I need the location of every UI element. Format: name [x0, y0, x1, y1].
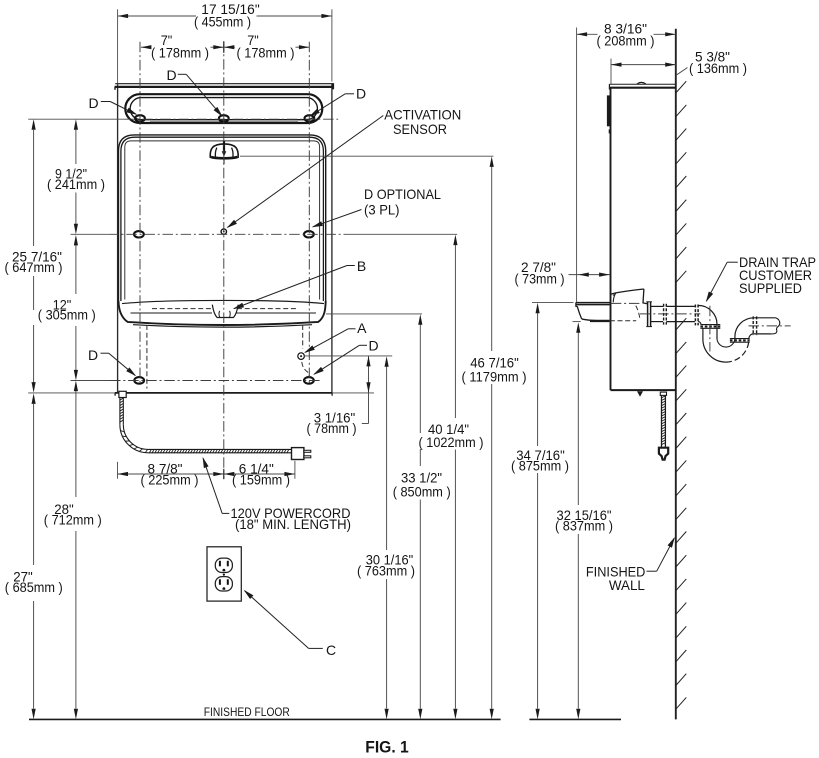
- svg-text:D OPTIONAL: D OPTIONAL: [364, 186, 441, 202]
- dimension 25 7/16in: [33, 130, 35, 246]
- wall hatching: [676, 81, 687, 709]
- waste pipe centerline: [749, 325, 791, 327]
- svg-text:( 647mm ): ( 647mm ): [5, 259, 63, 275]
- bubbler hood (side view): [611, 289, 644, 294]
- svg-text:SENSOR: SENSOR: [393, 121, 447, 137]
- trap hub joint below elbow: [700, 324, 720, 326]
- mounting hole D upper-left: [135, 115, 145, 121]
- waste outlet A (front view): [298, 353, 305, 360]
- trap vertical centerline: [709, 306, 711, 352]
- svg-text:C: C: [326, 642, 336, 658]
- svg-text:D: D: [368, 338, 378, 354]
- extension line bowl bottom (side): [573, 321, 581, 323]
- powercord plug (front view): [292, 448, 304, 460]
- dimension 46 7/16in height: [491, 167, 493, 352]
- dimension 7in left hole spacing: [141, 46, 149, 48]
- svg-text:( 208mm ): ( 208mm ): [597, 32, 655, 48]
- svg-text:( 837mm ): ( 837mm ): [555, 517, 613, 533]
- svg-text:A: A: [357, 320, 367, 336]
- mounting hole D lower-left: [134, 377, 144, 384]
- svg-text:D: D: [88, 347, 98, 363]
- trap U-bend: [703, 339, 726, 362]
- svg-text:( 241mm ): ( 241mm ): [47, 176, 105, 192]
- svg-text:( 1022mm ): ( 1022mm ): [419, 434, 484, 450]
- 120V powercord (front view): [119, 398, 121, 425]
- cabinet bottom (side view): [611, 389, 676, 391]
- dimension 40 1/4in height: [454, 245, 456, 419]
- drain trap elbow at wall: [694, 305, 696, 326]
- svg-text:( 763mm ): ( 763mm ): [357, 562, 415, 578]
- extension line left of unit width dim: [117, 9, 119, 83]
- finished wall line (side view): [675, 29, 677, 720]
- svg-text:SUPPLIED: SUPPLIED: [739, 280, 802, 296]
- drain tailpiece flange at bowl: [647, 302, 649, 327]
- svg-text:( 78mm ): ( 78mm ): [307, 420, 357, 436]
- horizontal centerline upper holes: [28, 118, 124, 120]
- trap inlet riser: [702, 328, 704, 339]
- centerline through right hole column: [308, 42, 310, 386]
- basin hidden rim lines (front view): [152, 308, 211, 310]
- duplex electrical outlet C: [207, 547, 241, 601]
- extension line bowl rim (side): [532, 301, 574, 303]
- wall-mount back plate left edge (front view): [117, 84, 119, 393]
- svg-text:( 712mm ): ( 712mm ): [44, 511, 102, 527]
- bowl (side view): [576, 301, 611, 303]
- bowl hidden lines behind panel (side view): [611, 302, 640, 304]
- drain pipe centerline: [640, 313, 700, 315]
- dimension 33 1/2in height: [419, 325, 421, 434]
- top shelf edge of unit (front view): [115, 83, 333, 85]
- powercord hanging (side view): [660, 392, 666, 395]
- bowl drain fitting B (front view): [212, 305, 238, 318]
- dimension 3 1/16in: [368, 356, 370, 424]
- svg-text:(3 PL): (3 PL): [364, 202, 400, 218]
- dimension 7in right hole spacing: [224, 46, 235, 48]
- upper mounting bracket obround ring (front view): [125, 94, 322, 123]
- hidden edge below bowl right (front view): [302, 325, 304, 349]
- mounting hole D mid-left: [134, 231, 144, 237]
- mounting hole D upper-right: [305, 115, 315, 121]
- svg-text:( 305mm ): ( 305mm ): [38, 307, 96, 323]
- svg-text:( 159mm ): ( 159mm ): [232, 471, 290, 487]
- svg-text:( 73mm ): ( 73mm ): [515, 270, 565, 286]
- svg-text:FINISHED FLOOR: FINISHED FLOOR: [204, 706, 290, 719]
- extension line activation sensor height: [240, 155, 493, 157]
- centerline through left hole column: [139, 42, 141, 386]
- extension line cord left: [117, 462, 119, 479]
- svg-text:( 178mm ): ( 178mm ): [237, 45, 295, 61]
- extension line cord right at plug: [294, 461, 296, 479]
- svg-text:( 850mm ): ( 850mm ): [393, 483, 451, 499]
- dimension 28in: [75, 391, 77, 497]
- dimension 32 15/16in height: [577, 333, 579, 506]
- extension line unit bottom: [28, 392, 115, 394]
- svg-text:( 1179mm ): ( 1179mm ): [462, 369, 527, 385]
- wall-mount back plate right edge (front view): [331, 84, 333, 393]
- svg-text:D: D: [356, 85, 366, 101]
- extension line right of unit width dim: [331, 9, 333, 81]
- mounting hole D lower-right: [304, 377, 314, 384]
- horizontal centerline mid holes: [71, 233, 109, 235]
- svg-text:( 136mm ): ( 136mm ): [689, 60, 747, 76]
- hidden edge below bowl left (front view): [146, 325, 148, 389]
- dimension 34 7/16in height: [537, 313, 539, 446]
- svg-text:( 178mm ): ( 178mm ): [151, 45, 209, 61]
- cabinet front face (side view): [610, 88, 612, 390]
- waste pipe to drain: [754, 317, 776, 319]
- dimension 27in: [33, 404, 35, 565]
- powercord hatching (side view): [661, 396, 666, 445]
- mounting hole D upper-center: [219, 115, 229, 121]
- svg-text:( 875mm ): ( 875mm ): [511, 458, 569, 474]
- dimension 9 1/2in: [75, 130, 77, 164]
- dimension 12in: [75, 245, 77, 294]
- dimension 30 1/16in height: [386, 367, 388, 551]
- extension line cabinet front top: [610, 59, 612, 84]
- svg-text:B: B: [357, 258, 366, 274]
- basin bowl outline (front view): [119, 301, 326, 325]
- activation sensor housing (front view): [210, 144, 238, 158]
- extension line bowl front: [576, 28, 578, 303]
- svg-text:(18" MIN. LENGTH): (18" MIN. LENGTH): [235, 516, 351, 532]
- cabinet front panel outline (front view): [119, 135, 326, 301]
- svg-text:FIG. 1: FIG. 1: [365, 738, 409, 756]
- activation sensor mounting hole mid-center: [221, 229, 226, 234]
- dimension 2 7/8in: [569, 274, 610, 276]
- dimension 5 3/8in: [611, 64, 676, 66]
- dimension 17 15/16in overall width: [118, 15, 196, 17]
- svg-text:( 455mm ): ( 455mm ): [194, 14, 251, 30]
- dimension 8 3/16in: [577, 33, 598, 35]
- horizontal centerline lower holes: [71, 380, 111, 382]
- svg-text:( 685mm ): ( 685mm ): [5, 579, 63, 595]
- activation sensor window (side view): [607, 95, 611, 126]
- svg-text:WALL: WALL: [609, 577, 645, 593]
- powercord strain relief tab (front view): [119, 391, 126, 397]
- finished floor line: [29, 718, 501, 720]
- dimension 8 7/8in and 6 1/4in cord position: [118, 473, 295, 475]
- unit bottom edge (front view): [115, 392, 333, 394]
- extension line bowl rim height: [326, 313, 422, 315]
- trap outlet hub joint: [730, 338, 750, 340]
- svg-text:D: D: [88, 95, 98, 111]
- extension line waste outlet A height: [304, 355, 393, 357]
- cabinet top cap (side view): [609, 83, 675, 85]
- mounting hole D mid-right: [304, 231, 314, 237]
- svg-text:D: D: [166, 67, 176, 83]
- svg-text:( 225mm ): ( 225mm ): [141, 471, 199, 487]
- powercord plug (side view): [659, 448, 668, 460]
- trap outlet bend: [735, 318, 754, 339]
- drain pipe to wall (side view): [651, 305, 664, 307]
- vertical centerline of unit: [223, 41, 225, 479]
